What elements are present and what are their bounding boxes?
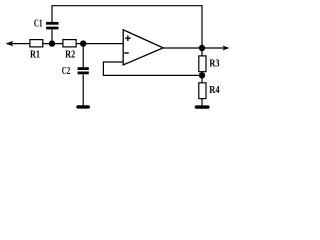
svg-text:R1: R1 — [30, 49, 40, 60]
svg-text:R2: R2 — [65, 49, 75, 60]
svg-text:C1: C1 — [34, 19, 43, 30]
svg-text:R4: R4 — [209, 85, 219, 96]
svg-text:R3: R3 — [209, 59, 219, 70]
svg-text:C2: C2 — [62, 66, 70, 77]
